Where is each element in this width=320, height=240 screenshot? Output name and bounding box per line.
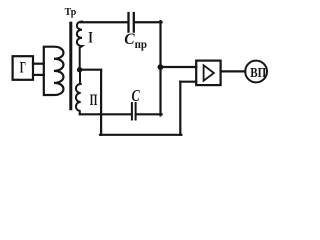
svg-text:С: С: [124, 31, 135, 48]
wire vertical drop: [100, 70, 102, 135]
wire generator lower stub: [33, 74, 44, 76]
wire bottom rail: [100, 134, 181, 136]
svg-text:Г: Г: [20, 60, 26, 77]
wire generator upper stub: [33, 63, 44, 65]
wire Cpr to corner: [135, 21, 162, 23]
capacitor C plates: [132, 103, 136, 120]
generator G box: [13, 56, 33, 80]
amplifier U1 box: [196, 61, 220, 86]
svg-text:C: C: [132, 86, 141, 105]
winding II (П) secondary: [76, 71, 81, 114]
transformer core: [69, 23, 72, 109]
wire junction to amplifier: [160, 66, 196, 68]
wire right riser: [179, 82, 181, 135]
svg-text:П: П: [90, 92, 98, 109]
node junction dot: [158, 64, 164, 70]
svg-text:пр: пр: [135, 37, 148, 51]
wire amplifier to VP: [221, 70, 246, 72]
wire right vertical: [159, 21, 161, 115]
svg-text:I: I: [88, 30, 93, 47]
wire C left: [80, 113, 131, 115]
indicator VP circle: [245, 61, 267, 83]
wire C right: [137, 113, 162, 115]
svg-text:Тр: Тр: [65, 6, 77, 18]
capacitor Cpr plates: [129, 13, 134, 32]
wire riser to amplifier: [180, 81, 196, 83]
wire tap to vertical: [79, 69, 101, 71]
winding I secondary: [77, 22, 82, 69]
svg-text:ВП: ВП: [250, 66, 266, 81]
node tap dot: [77, 67, 82, 72]
wire top (winding I to Cpr): [81, 21, 128, 23]
transformer Tr primary winding: [44, 47, 64, 95]
amplifier triangle: [204, 65, 214, 80]
